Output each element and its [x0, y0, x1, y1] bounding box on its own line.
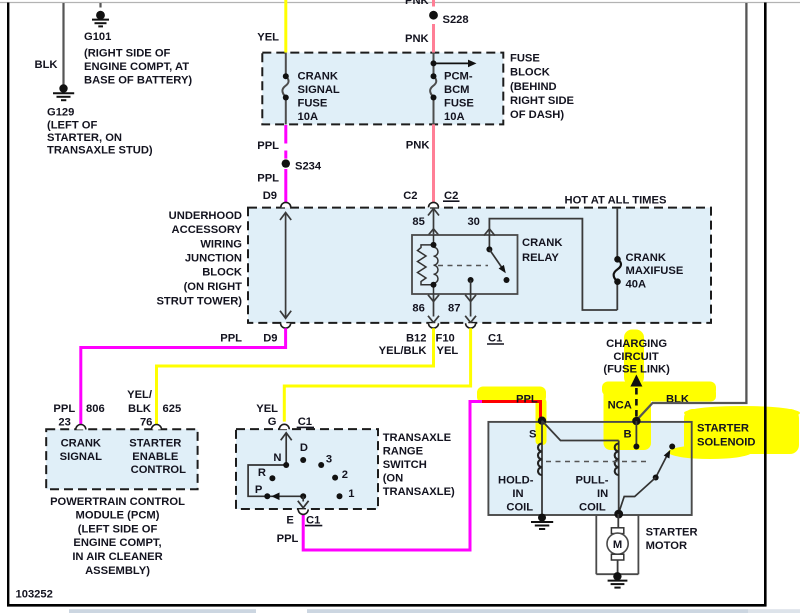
motor to ground: [617, 560, 619, 576]
connector bump D9 bottom: [281, 323, 291, 328]
scrollbar end piece: [748, 609, 800, 613]
splice S234: [282, 159, 290, 167]
scrollbar track: [0, 609, 800, 613]
svg-text:YEL: YEL: [437, 345, 459, 357]
svg-text:B12: B12: [406, 333, 427, 345]
svg-text:(BEHIND: (BEHIND: [510, 81, 557, 93]
contact 1: [337, 493, 343, 499]
page right border: [764, 3, 767, 607]
contact R: [269, 475, 275, 481]
svg-text:C1: C1: [306, 514, 320, 526]
page bottom border: [7, 604, 767, 607]
terminal S: [538, 417, 546, 425]
wire PPL to junction block: [284, 169, 287, 203]
motor feed wire: [617, 514, 619, 529]
wire YEL from F10 to range switch: [283, 328, 472, 421]
solenoid mechanical dashed link: [546, 461, 650, 463]
svg-text:PNK: PNK: [405, 33, 429, 45]
svg-text:MOTOR: MOTOR: [646, 540, 687, 552]
relay mechanical dashed link: [438, 265, 488, 267]
svg-text:BLOCK: BLOCK: [202, 267, 242, 279]
svg-text:PULL-: PULL-: [576, 474, 609, 486]
connector bump E: [298, 509, 308, 514]
svg-text:(LEFT OF: (LEFT OF: [47, 119, 97, 131]
highlighter mark over BLK label: [648, 388, 716, 402]
NCA fusible link arrow: [630, 375, 642, 387]
svg-text:BLK: BLK: [35, 59, 58, 71]
wire stub above G101: [99, 3, 101, 8]
ground G101: [92, 11, 109, 27]
svg-text:PPL: PPL: [257, 140, 279, 152]
svg-text:C1: C1: [298, 416, 312, 428]
wire 85 from C2 into relay: [433, 209, 435, 235]
fuse CRANK SIGNAL FUSE 10A: [282, 53, 288, 125]
svg-text:86: 86: [412, 303, 424, 315]
svg-text:STARTER: STARTER: [646, 527, 698, 539]
svg-text:30: 30: [467, 216, 479, 228]
svg-text:CRANK: CRANK: [626, 252, 666, 264]
transaxle range switch block: [236, 429, 378, 509]
contact N: [283, 462, 289, 468]
svg-text:RANGE: RANGE: [383, 445, 424, 457]
relay coil winding: [418, 235, 439, 294]
svg-text:YEL/: YEL/: [127, 389, 152, 401]
solenoid switch upper contact: [669, 444, 675, 450]
ground G129: [53, 84, 74, 100]
svg-text:F10: F10: [436, 333, 455, 345]
svg-text:G101: G101: [84, 31, 111, 43]
wire PPL dashed below fuse block: [284, 125, 287, 159]
svg-text:(LEFT SIDE OF: (LEFT SIDE OF: [78, 523, 158, 535]
highlighter mark over STARTER SOLENOID label: [684, 409, 799, 454]
highlighter streak down S terminal wire: [536, 398, 547, 445]
starter solenoid block border: [488, 422, 691, 515]
svg-text:D9: D9: [263, 190, 277, 202]
contact D: [300, 457, 306, 463]
svg-text:STARTER: STARTER: [129, 437, 181, 449]
svg-text:PPL: PPL: [220, 333, 242, 345]
wire PNK above S228: [432, 0, 435, 7]
wire PPL from range switch to solenoid (highlight turns it red): [303, 402, 484, 551]
pull-in coil wire: [618, 441, 620, 514]
svg-text:BLK: BLK: [128, 403, 151, 415]
scrollbar thumb segment 1: [69, 609, 256, 613]
svg-text:10A: 10A: [298, 111, 319, 123]
svg-text:HOLD-: HOLD-: [498, 474, 534, 486]
svg-text:TRANSAXLE: TRANSAXLE: [383, 432, 452, 444]
B terminal stub to fixed contact: [635, 421, 637, 447]
svg-text:B: B: [624, 428, 632, 440]
svg-text:M: M: [613, 539, 622, 551]
highlighter streak through CHARGING CIRCUIT text: [624, 330, 644, 386]
svg-text:CRANK: CRANK: [522, 237, 562, 249]
connector bump D9 top: [281, 202, 291, 207]
svg-text:PNK: PNK: [406, 139, 430, 151]
wire D9 pass-through with arrows: [285, 214, 287, 317]
svg-text:BASE OF BATTERY): BASE OF BATTERY): [84, 75, 192, 87]
svg-text:STARTER: STARTER: [697, 423, 749, 435]
svg-text:ENABLE: ENABLE: [132, 451, 179, 463]
page left border: [7, 3, 9, 607]
svg-text:G: G: [268, 416, 277, 428]
svg-text:UNDERHOOD: UNDERHOOD: [169, 210, 242, 222]
wire BLK to G129: [62, 3, 64, 85]
svg-text:625: 625: [163, 403, 182, 415]
wire YEL from top to fuse block: [284, 0, 287, 53]
arrow tap on PCM-BCM fuse feed: [431, 60, 437, 66]
wiper arrowhead at P: [271, 493, 279, 501]
terminal B: [632, 417, 640, 425]
svg-text:C1: C1: [488, 333, 502, 345]
highlighter mark over PPL label: [477, 387, 546, 404]
svg-text:RELAY: RELAY: [522, 252, 559, 264]
svg-text:ENGINE COMPT,: ENGINE COMPT,: [73, 537, 161, 549]
svg-text:YEL: YEL: [257, 32, 279, 44]
svg-text:CRANK: CRANK: [298, 70, 338, 82]
starter motor housing: [596, 515, 638, 574]
svg-text:R: R: [258, 467, 266, 479]
solenoid switch arm with arrowhead: [656, 457, 667, 478]
svg-text:23: 23: [58, 417, 70, 429]
svg-text:3: 3: [326, 453, 332, 465]
svg-text:BLOCK: BLOCK: [510, 67, 550, 79]
svg-text:POWERTRAIN CONTROL: POWERTRAIN CONTROL: [50, 496, 185, 508]
svg-text:ACCESSORY: ACCESSORY: [172, 224, 243, 236]
svg-text:OF DASH): OF DASH): [510, 109, 564, 121]
svg-text:87: 87: [448, 303, 460, 315]
svg-text:85: 85: [412, 216, 424, 228]
relay switch contacts: [488, 235, 490, 249]
svg-text:CRANK: CRANK: [61, 437, 101, 449]
svg-text:FUSE: FUSE: [444, 98, 474, 110]
svg-text:(ON: (ON: [383, 472, 404, 484]
svg-text:C2: C2: [403, 190, 417, 202]
crank maxifuse 40A: [616, 208, 618, 259]
hold-in coil wire: [541, 421, 543, 518]
svg-text:D: D: [300, 442, 308, 454]
connector bump B12: [429, 323, 439, 328]
svg-text:IN: IN: [512, 488, 523, 500]
svg-text:WIRING: WIRING: [200, 238, 242, 250]
svg-text:40A: 40A: [626, 279, 647, 291]
svg-text:(FUSE LINK): (FUSE LINK): [603, 364, 670, 376]
svg-text:STRUT TOWER): STRUT TOWER): [156, 295, 242, 307]
scrollbar thumb segment 2: [307, 609, 748, 613]
connector bump PCM 806: [76, 425, 86, 430]
svg-text:76: 76: [140, 417, 152, 429]
linkage to pull-in coil bottom: [619, 478, 656, 514]
motor brush top: [611, 528, 623, 534]
contact E output: [300, 493, 306, 499]
svg-text:S234: S234: [295, 160, 322, 172]
svg-text:SIGNAL: SIGNAL: [60, 451, 102, 463]
svg-text:PNK: PNK: [405, 0, 429, 7]
wire YEL/BLK from B12 to PCM: [155, 328, 435, 424]
crank relay box: [412, 235, 518, 294]
svg-text:PPL: PPL: [516, 393, 538, 405]
svg-text:TRANSAXLE STUD): TRANSAXLE STUD): [47, 145, 153, 157]
svg-text:IN AIR CLEANER: IN AIR CLEANER: [72, 551, 162, 563]
svg-text:(ON RIGHT: (ON RIGHT: [184, 281, 243, 293]
svg-text:FUSE: FUSE: [510, 53, 540, 65]
contact 3: [318, 462, 324, 468]
svg-text:E: E: [286, 514, 294, 526]
svg-text:N: N: [273, 452, 281, 464]
svg-text:COIL: COIL: [506, 501, 533, 513]
range switch wiper arm to G: [285, 433, 287, 465]
connector bump F10: [466, 323, 476, 328]
fuse PCM-BCM FUSE 10A: [430, 53, 436, 125]
wire PNK to fuse block: [432, 24, 435, 53]
contact 2: [332, 475, 338, 481]
connector bump G: [279, 424, 289, 429]
wire E exit: [302, 496, 304, 501]
svg-text:COIL: COIL: [579, 501, 606, 513]
svg-text:YEL/BLK: YEL/BLK: [379, 345, 427, 357]
svg-text:D9: D9: [263, 333, 277, 345]
svg-text:SOLENOID: SOLENOID: [697, 437, 755, 449]
svg-text:PPL: PPL: [53, 403, 75, 415]
svg-text:STARTER, ON: STARTER, ON: [47, 132, 122, 144]
motor brush bottom: [611, 554, 623, 560]
connector bump PCM 625: [152, 425, 162, 430]
page top hairline: [0, 2, 800, 4]
svg-text:MODULE (PCM): MODULE (PCM): [76, 510, 160, 522]
svg-text:1: 1: [348, 488, 354, 500]
svg-text:S228: S228: [443, 14, 469, 26]
highlighter mark over NCA and B terminal: [604, 386, 652, 450]
svg-text:RIGHT SIDE: RIGHT SIDE: [510, 95, 575, 107]
wire 87 exit from relay: [470, 294, 472, 317]
svg-text:806: 806: [86, 403, 105, 415]
wire PNK to junction block: [432, 124, 435, 202]
wire 30 to crank maxifuse: [489, 219, 617, 310]
svg-text:MAXIFUSE: MAXIFUSE: [626, 265, 684, 277]
range switch park contact path: [248, 465, 303, 496]
junction dot pull-in coil to motor: [614, 510, 623, 519]
svg-text:IN: IN: [597, 488, 608, 500]
highlighter swipe below charging circuit text: [602, 382, 716, 397]
svg-text:YEL: YEL: [256, 403, 278, 415]
contact P: [264, 493, 270, 499]
link from S to pull-in coil: [542, 421, 619, 441]
wire 86 exit from relay: [433, 294, 435, 317]
svg-text:CHARGING: CHARGING: [606, 338, 667, 350]
svg-text:BCM: BCM: [444, 84, 469, 96]
svg-text:2: 2: [342, 469, 348, 481]
underhood accessory wiring junction block: [248, 208, 711, 323]
svg-text:103252: 103252: [16, 589, 53, 601]
svg-text:JUNCTION: JUNCTION: [185, 253, 242, 265]
svg-text:ENGINE COMPT, AT: ENGINE COMPT, AT: [84, 61, 189, 73]
splice S228: [429, 11, 438, 20]
svg-text:SIGNAL: SIGNAL: [298, 84, 340, 96]
red-looking highlighted PPL segment into S terminal: [482, 402, 541, 420]
svg-text:PCM-: PCM-: [444, 70, 473, 82]
svg-text:(RIGHT SIDE OF: (RIGHT SIDE OF: [84, 47, 171, 59]
svg-text:FUSE: FUSE: [298, 98, 328, 110]
ground below hold-in coil: [538, 514, 546, 522]
fuse block (behind right side of dash): [262, 53, 503, 125]
svg-text:P: P: [255, 484, 263, 496]
svg-text:PPL: PPL: [277, 533, 299, 545]
powertrain control module (PCM) block: [46, 429, 197, 489]
svg-text:NCA: NCA: [608, 400, 632, 412]
svg-text:ASSEMBLY): ASSEMBLY): [85, 565, 150, 577]
svg-text:S: S: [529, 428, 537, 440]
svg-text:TRANSAXLE): TRANSAXLE): [383, 486, 455, 498]
svg-text:CIRCUIT: CIRCUIT: [613, 351, 659, 363]
starter solenoid block fill: [488, 422, 691, 515]
motor armature M: [607, 533, 628, 554]
wire BLK from B terminal up right side: [636, 3, 746, 420]
connector bump C2 top: [429, 202, 439, 207]
svg-text:G129: G129: [47, 107, 74, 119]
svg-text:HOT AT ALL TIMES: HOT AT ALL TIMES: [565, 194, 667, 206]
wire PPL from D9 to PCM: [79, 328, 287, 424]
svg-text:SWITCH: SWITCH: [383, 459, 427, 471]
svg-text:CONTROL: CONTROL: [131, 464, 186, 476]
svg-text:PPL: PPL: [257, 173, 279, 185]
svg-text:10A: 10A: [444, 111, 465, 123]
svg-text:C2: C2: [444, 190, 458, 202]
